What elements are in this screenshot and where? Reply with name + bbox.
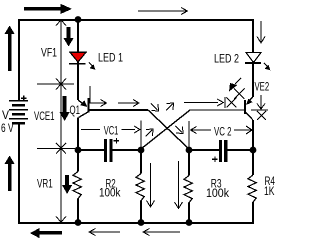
- wire bottom rail: [18, 222, 254, 224]
- node dot bottom rail R2: [138, 219, 145, 226]
- thick arrow down beside Q1: [63, 96, 67, 113]
- node dot bottom rail R1: [75, 219, 82, 226]
- node dot C1 left: [75, 147, 82, 154]
- svg-text:VE2: VE2: [255, 82, 270, 94]
- thick arrow down above LED1: [67, 27, 71, 39]
- wire LED1 branch vertical: [77, 20, 79, 100]
- transistor Q1: [78, 98, 148, 118]
- node dot C1 right / R2: [138, 147, 145, 154]
- LED 1 (on, red): [69, 52, 95, 70]
- svg-text:VC1: VC1: [104, 126, 119, 138]
- thin arrow down beside R2: [150, 163, 152, 206]
- resistor R1: [73, 172, 81, 199]
- thick arrow right top: [24, 7, 62, 11]
- node dot top rail / LED1: [75, 16, 82, 23]
- svg-text:LED 1: LED 1: [98, 53, 123, 65]
- thin arrow NE on lower-left diagonal: [146, 130, 153, 137]
- resistor R2: [136, 174, 144, 201]
- svg-text:100k: 100k: [99, 188, 121, 200]
- thin arrow down beside R3: [178, 161, 180, 208]
- transistor Q2: [190, 97, 253, 120]
- annotation VC1: [81, 126, 140, 133]
- annotation VE2 arrow and zero mark: [251, 95, 268, 120]
- svg-text:100k: 100k: [206, 188, 229, 200]
- thin arrow left below bottom rail from R3: [144, 231, 180, 233]
- svg-text:Q1: Q1: [70, 105, 81, 117]
- thin arrow NE on upper-right diagonal: [166, 104, 173, 111]
- wire left rail upper: [18, 19, 20, 100]
- annotation blocked current marks at Q2: [184, 78, 245, 108]
- thick arrow left bottom rail: [38, 231, 62, 235]
- svg-text:VCE1: VCE1: [34, 111, 55, 123]
- svg-text:VC 2: VC 2: [214, 127, 232, 139]
- wire middle row C1: [78, 149, 104, 151]
- thin arrow toward diagonal: [118, 102, 138, 104]
- node dot bottom rail R3: [186, 219, 193, 226]
- LED 2 (off, white): [245, 53, 270, 71]
- annotation VF1/VCE1/VR1 measure line: [37, 20, 75, 222]
- thin arrow left below bottom rail from R2: [90, 231, 120, 233]
- wire left rail lower: [18, 125, 20, 224]
- annotation thick loop current arrows: [5, 4, 74, 238]
- svg-text:VR1: VR1: [37, 179, 53, 191]
- battery V 6V: [9, 96, 28, 124]
- svg-text:1K: 1K: [264, 186, 275, 198]
- node dot C2 left / R3: [186, 147, 193, 154]
- thin arrow down right of LED2: [260, 21, 262, 42]
- capacitor C1: [104, 138, 119, 162]
- wire R3 branch vertical: [188, 150, 190, 176]
- annotation VC2: [191, 126, 253, 134]
- svg-text:LED 2: LED 2: [214, 54, 239, 66]
- thin arrow SE on lower diagonal: [176, 126, 183, 133]
- thin arrow SE on upper diagonal: [151, 104, 158, 111]
- wire cross-coupling diagonal (Q1 base to R3/C2 node): [148, 110, 189, 149]
- wire cross-coupling diagonal (Q2 base to R2/C1 node): [141, 110, 190, 149]
- capacitor C2: [212, 140, 227, 162]
- thick arrow up left top: [8, 33, 12, 71]
- svg-text:VF1: VF1: [41, 48, 57, 60]
- svg-text:6 V: 6 V: [1, 123, 14, 135]
- wire top rail: [18, 19, 253, 21]
- wire R2 branch vertical: [140, 150, 142, 174]
- wire middle row C2: [189, 149, 219, 151]
- thick arrow down beside R1: [65, 175, 69, 186]
- resistor R3: [184, 176, 192, 203]
- annotation thin current arrows (base current path of Q1): [89, 8, 265, 236]
- thick arrow up left bottom: [8, 163, 12, 191]
- thin arrow top rail: [138, 10, 186, 12]
- node tick above R2 junction: [140, 121, 142, 149]
- node dot C2 right: [250, 147, 257, 154]
- thin L arrow from Q1 base: [90, 86, 105, 103]
- svg-text:V: V: [2, 110, 9, 122]
- resistor R4: [248, 175, 256, 202]
- wire right branch LED2/Q2 column: [252, 19, 254, 97]
- node tick above R3 junction: [188, 121, 190, 148]
